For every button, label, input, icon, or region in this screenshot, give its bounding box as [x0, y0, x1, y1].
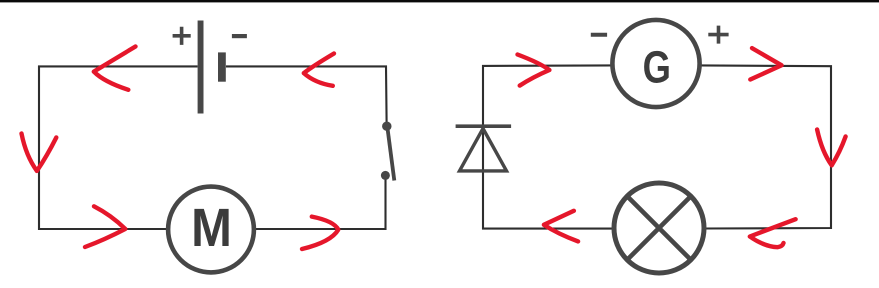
- galvanometer G circle: [612, 20, 699, 107]
- switch S1 top contact: [382, 122, 391, 131]
- switch S1 bottom contact: [381, 171, 390, 180]
- galvanometer - label: [591, 33, 607, 37]
- top border rule: [0, 0, 879, 2]
- lamp L1 cross: [627, 196, 691, 260]
- red arrow: right wire, pointing down: [817, 130, 846, 166]
- galvanometer + label: [708, 26, 728, 44]
- red arrow: bottom wire left, pointing left: [544, 211, 578, 242]
- red arrow: top wire left, pointing left: [94, 47, 136, 90]
- battery B1 short plate (-): [218, 52, 226, 81]
- switch S1 lever: [387, 128, 394, 181]
- svg-text:M: M: [191, 197, 232, 258]
- lamp L1 circle: [614, 183, 704, 273]
- red arrow: bottom wire right, pointing left: [750, 219, 796, 247]
- wire: top-right segment down to switch top: [226, 66, 387, 122]
- battery - label: [232, 34, 247, 38]
- wire: below switch to bottom-right segment: [255, 179, 385, 229]
- battery + label: [173, 27, 191, 45]
- wire: top-right segment, right vertical, bottom-right segment: [701, 65, 832, 228]
- motor M circle: [168, 187, 254, 273]
- red arrow: top wire left of G, pointing right: [518, 55, 550, 86]
- red arrow: bottom wire right, pointing right: [302, 217, 338, 249]
- red arrow: bottom wire left, pointing right: [85, 206, 125, 247]
- wire: top-left segment, left vertical, bottom-left segment: [483, 65, 613, 228]
- red arrow: top wire right of G, pointing right: [750, 48, 781, 79]
- red arrow: top wire right, pointing left: [304, 54, 334, 86]
- red arrow: left wire, pointing down: [22, 134, 57, 171]
- wire: top-left segment, left vertical, bottom-left segment: [39, 66, 198, 229]
- diode D1 cathode bar: [456, 124, 512, 128]
- svg-text:G: G: [643, 42, 671, 93]
- battery B1 long plate (+): [198, 21, 204, 114]
- diode D1 triangle: [460, 129, 507, 171]
